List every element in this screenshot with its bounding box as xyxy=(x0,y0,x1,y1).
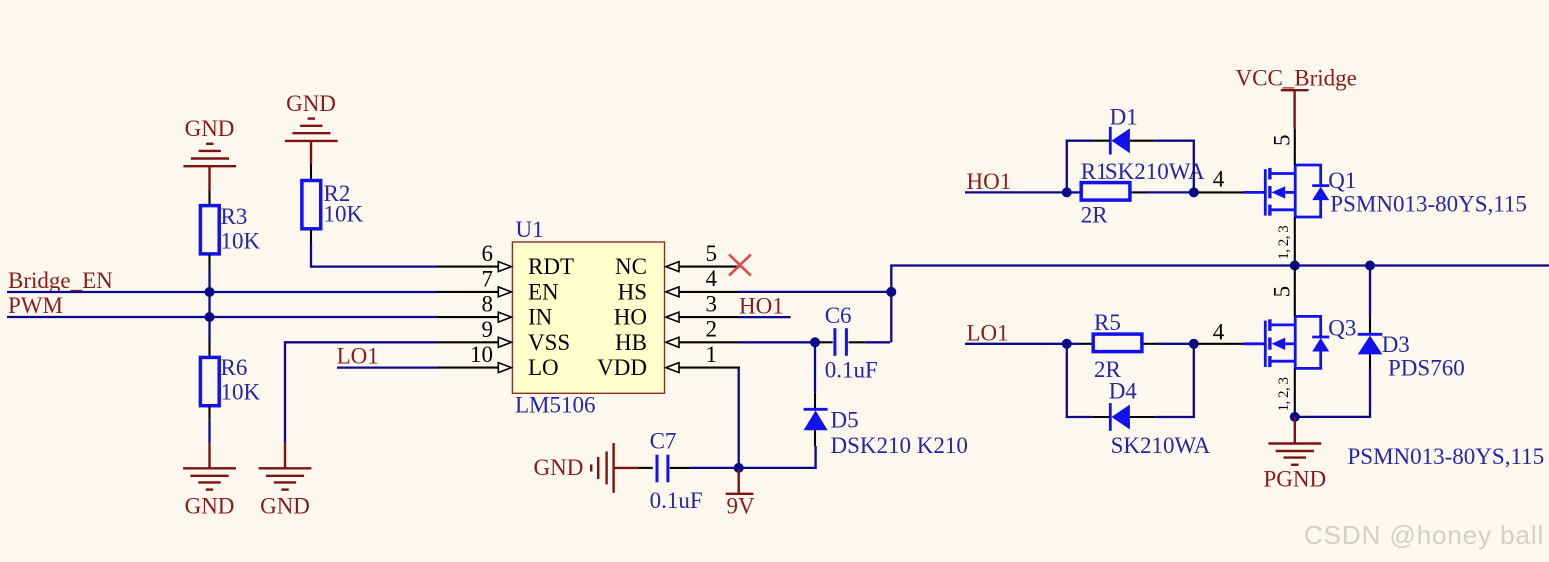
op-amp U1 body xyxy=(512,217,664,418)
svg-text:Bridge_EN: Bridge_EN xyxy=(8,268,113,293)
svg-text:EN: EN xyxy=(528,279,559,304)
pin D5 anode xyxy=(814,430,816,446)
pin R6.1 xyxy=(208,342,210,356)
wire PWM xyxy=(7,316,438,318)
pin D3 anode xyxy=(1369,354,1371,369)
diode D3 xyxy=(1358,332,1465,381)
svg-text:10K: 10K xyxy=(324,202,364,227)
transistor Q1 xyxy=(1244,165,1527,217)
pin R3.2 xyxy=(208,254,210,268)
wire D1 loop left xyxy=(1067,141,1093,193)
svg-text:0.1uF: 0.1uF xyxy=(825,358,878,383)
pin Q3 drain (5) xyxy=(1294,266,1296,317)
wire PWM to R6 xyxy=(208,317,210,342)
svg-text:CSDN @honey ball: CSDN @honey ball xyxy=(1304,520,1544,550)
svg-text:Q3: Q3 xyxy=(1328,316,1356,341)
resistor R6 xyxy=(200,355,260,406)
svg-text:LO: LO xyxy=(528,355,559,380)
svg-text:6: 6 xyxy=(482,241,494,266)
svg-text:2: 2 xyxy=(706,317,718,342)
pin C6.1 xyxy=(819,341,833,343)
pin D4 anode xyxy=(1130,416,1156,418)
pin C7.2 xyxy=(670,467,690,469)
svg-text:4: 4 xyxy=(706,266,718,291)
svg-text:0.1uF: 0.1uF xyxy=(650,488,703,513)
U1 pin 6 xyxy=(438,241,512,272)
svg-text:10: 10 xyxy=(470,342,493,367)
resistor R1 xyxy=(1081,159,1130,228)
svg-text:4: 4 xyxy=(1213,167,1225,192)
capacitor C6 xyxy=(825,303,878,383)
wire HS: U1 pin 4 to HS node xyxy=(739,291,892,293)
svg-text:GND: GND xyxy=(185,494,235,519)
pin C7.1 xyxy=(639,467,653,469)
no-connect X on pin 5 xyxy=(729,254,751,275)
wire HB: U1 pin 2 to C6 xyxy=(739,341,815,343)
U1 pin 2 xyxy=(666,317,740,348)
power port 9V xyxy=(726,468,755,519)
U1 pin 10 xyxy=(438,342,512,373)
svg-text:D4: D4 xyxy=(1109,379,1138,404)
svg-text:R3: R3 xyxy=(221,204,248,229)
svg-text:C6: C6 xyxy=(825,303,852,328)
wire R3 to Bridge_EN xyxy=(208,268,210,292)
svg-text:1, 2, 3: 1, 2, 3 xyxy=(1276,378,1292,412)
pin D5 cathode xyxy=(814,392,816,408)
power port GND (below VSS wire) xyxy=(259,444,312,519)
wire junction to R5 xyxy=(1067,343,1081,345)
svg-text:RDT: RDT xyxy=(528,254,574,279)
wire U1 pin 9 (VSS) to GND xyxy=(285,342,438,444)
svg-text:HB: HB xyxy=(615,330,647,355)
wire LO1 to U1 pin 10 xyxy=(337,366,438,368)
svg-text:4: 4 xyxy=(1213,319,1225,344)
svg-text:DSK210 K210: DSK210 K210 xyxy=(831,433,968,458)
pin Q1 drain (5) xyxy=(1294,128,1296,165)
wire R6 to GND xyxy=(208,419,210,444)
svg-text:1: 1 xyxy=(706,342,718,367)
pin R1.2 xyxy=(1132,191,1146,193)
power port GND (above R2) xyxy=(285,91,338,165)
diode D1 xyxy=(1105,104,1205,184)
svg-text:2R: 2R xyxy=(1081,203,1109,228)
svg-text:9: 9 xyxy=(482,317,494,342)
svg-text:PWM: PWM xyxy=(8,293,63,318)
pin R3.1 xyxy=(208,190,210,204)
svg-text:5: 5 xyxy=(706,241,718,266)
wire R1 to gate node xyxy=(1146,191,1194,193)
junction HB / C6 / D5 xyxy=(810,337,820,347)
svg-text:D1: D1 xyxy=(1110,104,1138,129)
svg-text:PSMN013-80YS,115: PSMN013-80YS,115 xyxy=(1330,192,1527,217)
pin Q3 gate stub xyxy=(1197,343,1244,345)
resistor R2 xyxy=(302,181,364,229)
junction LO1 / R5 / D4 xyxy=(1062,339,1072,349)
U1 pin 8 xyxy=(438,292,512,323)
wire between junctions xyxy=(208,292,210,317)
wire LO1 to R5 xyxy=(965,343,1067,345)
pin C6.2 xyxy=(849,341,865,343)
svg-text:PGND: PGND xyxy=(1263,467,1326,492)
svg-text:R6: R6 xyxy=(221,355,248,380)
wire Bridge_EN xyxy=(7,291,438,293)
diode D5 xyxy=(804,408,968,458)
svg-text:5: 5 xyxy=(1270,286,1295,298)
svg-text:PSMN013-80YS,115: PSMN013-80YS,115 xyxy=(1348,444,1545,469)
svg-text:5: 5 xyxy=(1270,135,1295,147)
svg-text:VCC_Bridge: VCC_Bridge xyxy=(1236,66,1357,91)
svg-text:HO1: HO1 xyxy=(967,169,1012,194)
wire C7 to 9V node xyxy=(690,467,739,469)
junction 9V node xyxy=(734,463,744,473)
pin R5.1 xyxy=(1081,343,1093,345)
junction Q1 source / HS rail xyxy=(1290,261,1300,271)
U1 pin 9 xyxy=(438,317,512,348)
pin Q1 source (1,2,3) xyxy=(1294,217,1296,266)
wire D4 loop left xyxy=(1067,344,1093,417)
svg-text:C7: C7 xyxy=(650,429,677,454)
resistor R3 xyxy=(200,204,260,254)
svg-text:GND: GND xyxy=(286,91,336,116)
wire junction to R1 xyxy=(1067,191,1081,193)
pin Q1 gate stub xyxy=(1197,191,1244,193)
pin R2.2 xyxy=(310,229,312,243)
svg-text:GND: GND xyxy=(185,116,235,141)
wire C6 to HS node xyxy=(865,341,891,343)
power port PGND xyxy=(1263,417,1326,492)
wire HB node down to D5 xyxy=(814,342,816,392)
pin D4 cathode xyxy=(1093,416,1110,418)
wire HO1 to R1 xyxy=(965,191,1067,193)
pin Q3 source (1,2,3) xyxy=(1294,368,1296,417)
wire D3 anode to Q3 source xyxy=(1295,369,1370,417)
capacitor C7 xyxy=(650,429,703,514)
svg-text:NC: NC xyxy=(615,254,647,279)
svg-text:LM5106: LM5106 xyxy=(515,393,596,418)
junction PWM / R6 xyxy=(205,312,215,322)
svg-text:7: 7 xyxy=(482,266,494,291)
svg-text:8: 8 xyxy=(482,292,494,317)
diode D4 xyxy=(1109,379,1211,458)
svg-text:1, 2, 3: 1, 2, 3 xyxy=(1276,226,1292,260)
svg-text:GND: GND xyxy=(534,455,584,480)
wire D4 loop right xyxy=(1155,344,1193,417)
svg-text:R1: R1 xyxy=(1081,159,1108,184)
junction R5 / D4 / Q3 gate xyxy=(1189,339,1199,349)
wire HO1 at U1 pin 3 xyxy=(739,316,791,318)
power port GND (sideways, at C7) xyxy=(534,443,639,493)
U1 right pin names xyxy=(597,254,647,380)
wire HS vertical xyxy=(891,266,1549,343)
junction HS xyxy=(886,287,896,297)
transistor Q3 xyxy=(1244,316,1545,470)
svg-text:VDD: VDD xyxy=(597,355,647,380)
svg-text:10K: 10K xyxy=(221,380,261,405)
svg-text:Q1: Q1 xyxy=(1328,168,1356,193)
wire D1 loop right xyxy=(1155,141,1193,193)
svg-text:GND: GND xyxy=(260,494,310,519)
svg-text:D5: D5 xyxy=(831,408,859,433)
pin R6.2 xyxy=(208,406,210,420)
wire D3 cathode to HS rail xyxy=(1369,266,1371,318)
wire VDD: U1 pin 1 down to 9V node xyxy=(738,368,740,468)
junction Q3 source / D3 / PGND xyxy=(1290,412,1300,422)
svg-text:U1: U1 xyxy=(516,217,544,242)
pin D1 anode xyxy=(1130,140,1156,142)
svg-text:HS: HS xyxy=(618,279,647,304)
svg-text:IN: IN xyxy=(528,305,553,330)
svg-text:LO1: LO1 xyxy=(967,320,1009,345)
U1 pin 7 xyxy=(438,266,512,297)
pin R2.1 xyxy=(310,165,312,180)
U1 pin 1 xyxy=(666,342,740,373)
U1 pin 3 xyxy=(666,291,740,322)
junction Bridge_EN / R3 xyxy=(205,287,215,297)
wire D5 to 9V node xyxy=(739,446,816,468)
svg-text:10K: 10K xyxy=(221,229,261,254)
U1 pin 4 xyxy=(666,266,740,297)
svg-text:VSS: VSS xyxy=(528,330,570,355)
svg-text:SK210WA: SK210WA xyxy=(1105,159,1205,184)
junction R1 / D1 / Q1 gate xyxy=(1189,187,1199,197)
pin D1 cathode xyxy=(1093,140,1110,142)
junction D3 / HS rail xyxy=(1365,261,1375,271)
svg-text:3: 3 xyxy=(706,291,718,316)
svg-text:SK210WA: SK210WA xyxy=(1111,433,1211,458)
svg-text:HO1: HO1 xyxy=(739,294,784,319)
power port GND (below R6) xyxy=(183,444,236,519)
svg-text:LO1: LO1 xyxy=(337,344,379,369)
svg-text:R5: R5 xyxy=(1094,310,1121,335)
pin D3 cathode xyxy=(1369,317,1371,334)
svg-text:9V: 9V xyxy=(727,494,756,519)
junction HO1 / R1 / D1 xyxy=(1062,187,1072,197)
svg-text:D3: D3 xyxy=(1382,332,1410,357)
svg-text:PDS760: PDS760 xyxy=(1388,356,1465,381)
svg-text:HO: HO xyxy=(614,305,647,330)
U1 pin 5 xyxy=(666,241,740,272)
power port VCC_Bridge xyxy=(1236,66,1357,129)
resistor R5 xyxy=(1093,310,1142,382)
wire R5 to gate node xyxy=(1158,343,1194,345)
wire R2 to U1 pin 6 xyxy=(311,243,438,267)
U1 left pin names xyxy=(528,254,574,380)
power port GND (above R3) xyxy=(183,116,236,190)
pin R5.2 xyxy=(1144,343,1159,345)
